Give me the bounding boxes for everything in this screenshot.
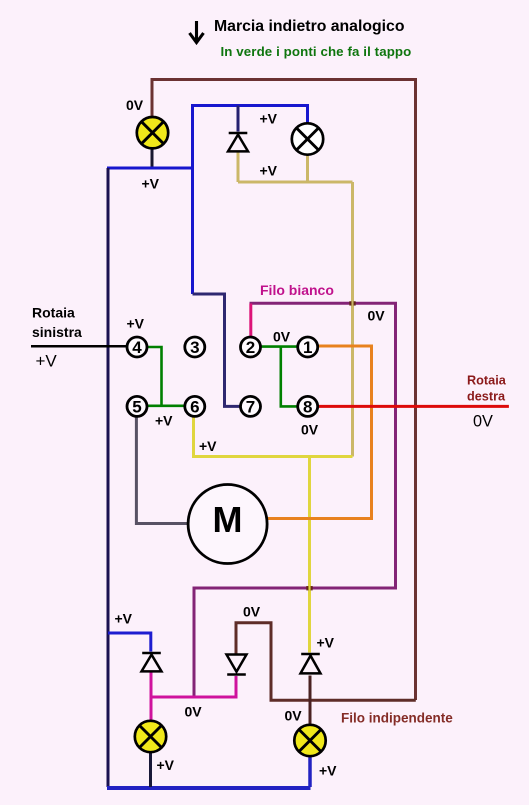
lamp L1 yellow top-left (137, 117, 168, 148)
diode D4 bottom-right (cathode bar top) (301, 654, 321, 673)
svg-text:In verde i ponti che fa il tap: In verde i ponti che fa il tappo (221, 44, 412, 59)
svg-text:+V: +V (260, 110, 278, 126)
junction blend dot yellow-purple (306, 586, 308, 590)
svg-text:Marcia indietro analogico: Marcia indietro analogico (214, 18, 405, 35)
svg-text:sinistra: sinistra (32, 324, 82, 340)
svg-text:M: M (213, 499, 243, 540)
node 2 (241, 337, 261, 357)
svg-text:2: 2 (246, 338, 255, 357)
svg-text:+V: +V (199, 438, 217, 454)
wire blue lamp4 bottom stub (308, 756, 312, 787)
wire purple long run (194, 303, 396, 695)
node 3 (185, 337, 205, 357)
svg-text:0V: 0V (273, 328, 291, 344)
svg-text:+V: +V (319, 763, 337, 779)
wire blue top: riser, top run, lamp2 feed (193, 106, 308, 295)
wire magenta bottom: D2 bottom, 0V run, D3 bottom (151, 672, 236, 721)
wire brown bottom: D3 top jog, 0V run to right frame (236, 623, 416, 701)
wire magenta filo bianco top (249, 304, 252, 337)
svg-text:7: 7 (246, 398, 255, 417)
svg-text:+V: +V (317, 635, 335, 651)
wire dark brown D4 bottom to lamp4 (309, 676, 312, 725)
svg-text:0V: 0V (243, 603, 261, 619)
svg-text:0V: 0V (301, 422, 319, 438)
lamp L2 white top-right (292, 123, 323, 154)
wire navy diode D1 feed (237, 106, 240, 132)
svg-text:0V: 0V (126, 97, 144, 113)
diode D1 top (cathode bar top) (228, 133, 248, 151)
svg-text:3: 3 (190, 338, 199, 357)
svg-text:5: 5 (132, 398, 141, 417)
wire green node2-node1 and branch to node8 (261, 347, 298, 407)
svg-text:Rotaia: Rotaia (32, 305, 75, 321)
junction blend dot tan-purple (349, 301, 351, 305)
svg-text:0V: 0V (185, 704, 203, 720)
node 1 (298, 337, 318, 357)
svg-text:+V: +V (115, 611, 133, 627)
wire yellow: node6 drop, run, riser to D4 (192, 416, 353, 653)
wire blue bottom frame (107, 786, 311, 790)
node 8 (298, 396, 318, 416)
lamp L3 yellow bottom-left (135, 721, 166, 752)
svg-text:+V: +V (127, 316, 145, 332)
wire tan: D1 bottom, run, lamp2 bottom, riser down (238, 152, 353, 457)
arrow down symbol (190, 21, 204, 43)
svg-text:1: 1 (303, 338, 312, 357)
wire brown: lamp1 top, top run, right frame (152, 80, 416, 701)
svg-text:+V: +V (142, 176, 160, 192)
node 5 (127, 396, 147, 416)
node 4 (127, 337, 147, 357)
svg-text:0V: 0V (368, 307, 386, 323)
wire red node8 to rotaia destra (318, 405, 509, 408)
svg-text:+V: +V (36, 351, 58, 370)
svg-text:Rotaia: Rotaia (467, 374, 507, 388)
svg-text:0V: 0V (285, 708, 303, 724)
wire navy left frame (107, 168, 110, 787)
svg-text:8: 8 (303, 398, 312, 417)
svg-text:+V: +V (260, 162, 278, 178)
wire black rotaia sinistra to node4 (31, 345, 127, 348)
svg-text:+V: +V (155, 413, 173, 429)
wire gray node5 to motor (136, 416, 188, 523)
node 6 (185, 396, 205, 416)
diode D2 bottom-left (cathode bar top) (142, 653, 162, 671)
svg-text:4: 4 (132, 338, 142, 357)
svg-text:6: 6 (190, 398, 199, 417)
svg-text:Filo indipendente: Filo indipendente (341, 711, 453, 726)
svg-text:+V: +V (157, 757, 175, 773)
wire navy: lamp1 bottom to left frame joint (151, 148, 154, 168)
wire blue bottom-left to D2 (108, 633, 151, 652)
wire navy jog to node 7 (193, 294, 241, 406)
wire navy lamp3 bottom stub (149, 752, 152, 787)
wire green node4 to node5-node6 link (147, 347, 185, 406)
lamp L4 yellow bottom-right (294, 725, 325, 756)
svg-text:Filo bianco: Filo bianco (260, 282, 334, 298)
motor M1 (188, 485, 267, 564)
wire orange node1 to motor (267, 346, 372, 519)
svg-text:destra: destra (467, 389, 506, 403)
node 7 (241, 396, 261, 416)
wire blue joint run (107, 167, 193, 170)
diode D3 bottom-middle (inverted, cathode bar bottom) (227, 655, 247, 675)
svg-text:0V: 0V (473, 413, 493, 431)
